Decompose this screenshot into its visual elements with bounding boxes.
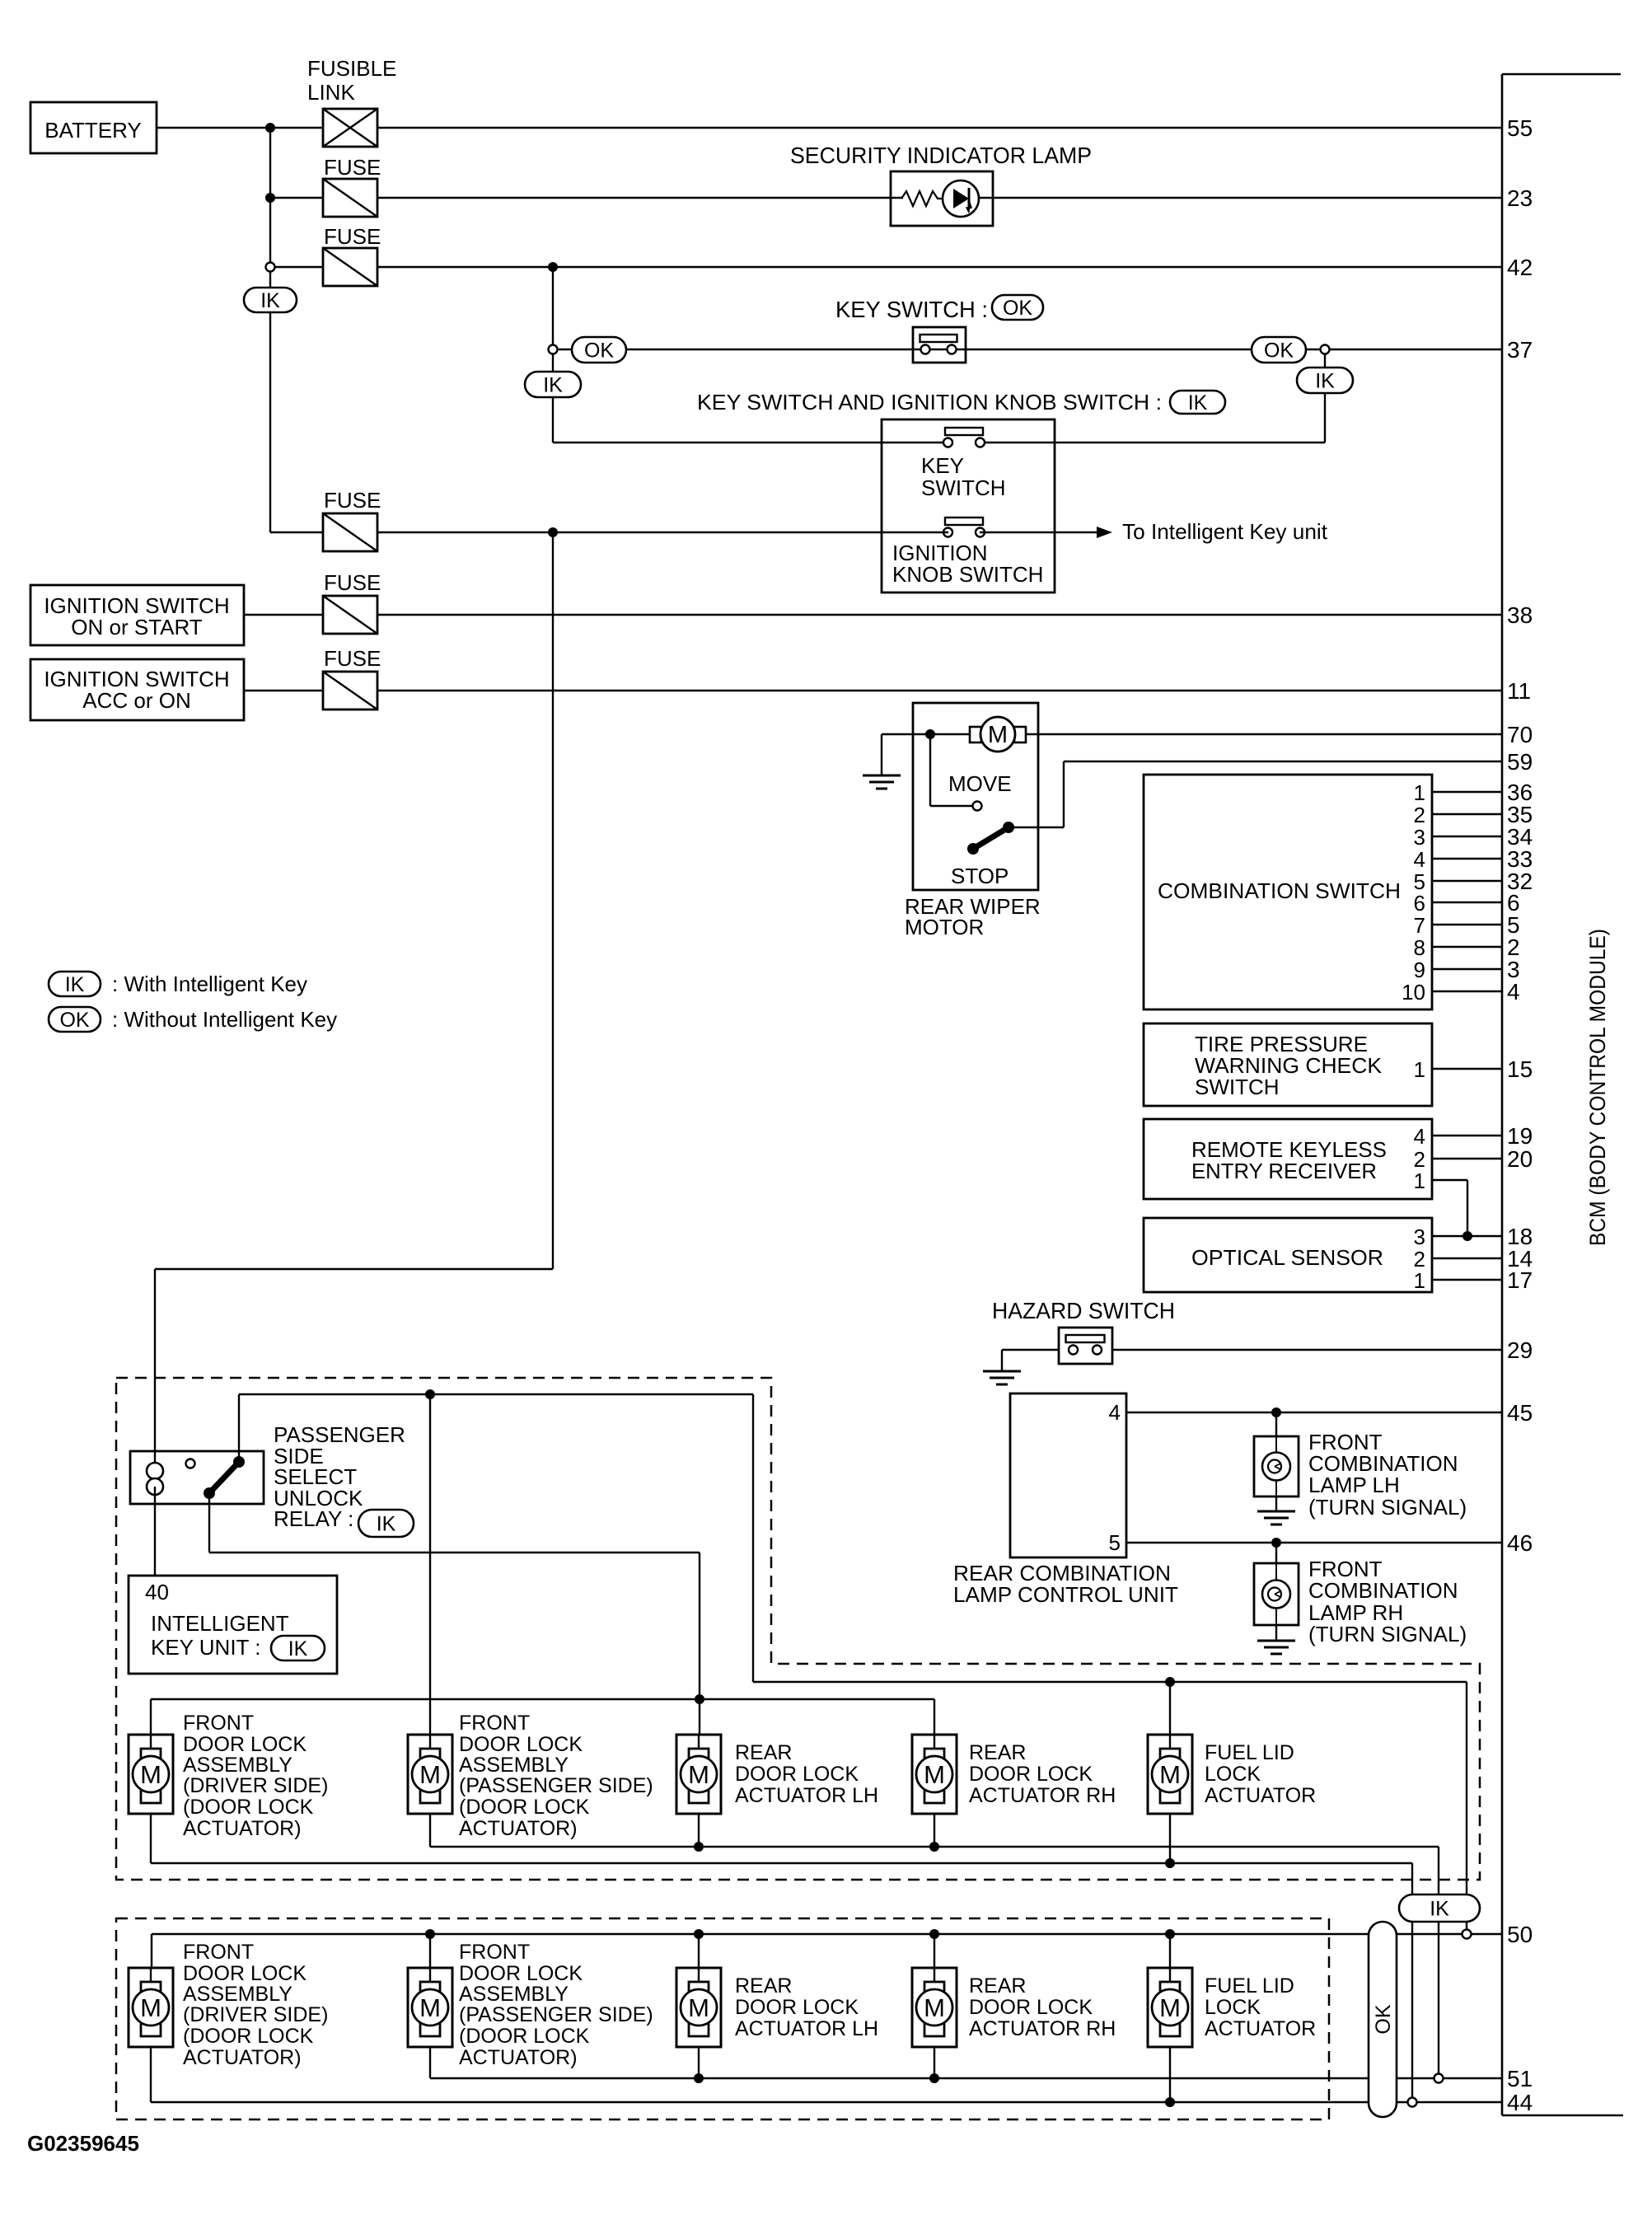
svg-text:4: 4 <box>1109 1400 1121 1425</box>
ground rear wiper <box>863 775 901 789</box>
svg-text:ASSEMBLY: ASSEMBLY <box>183 1983 292 2006</box>
wire battery column to fuse F3 <box>270 532 323 533</box>
svg-text:M: M <box>988 722 1008 748</box>
wire fusible link to pin 55 <box>377 127 1502 129</box>
front door lock actuator driver side IK <box>129 1735 173 1814</box>
rear door lock actuator RH OK <box>912 1968 957 2047</box>
pin 59 <box>1507 749 1533 775</box>
front door lock actuator passenger side OK <box>408 1968 452 2047</box>
svg-text:ACTUATOR): ACTUATOR) <box>183 2046 302 2069</box>
svg-text:42: 42 <box>1507 255 1533 280</box>
svg-text:IK: IK <box>543 374 563 397</box>
wire IK unlock net to pin 50 <box>1466 1682 1467 1934</box>
pin 45 <box>1507 1400 1533 1426</box>
svg-text:: Without Intelligent Key: : Without Intelligent Key <box>112 1007 337 1032</box>
node passenger unlock branch <box>425 1389 435 1399</box>
svg-text:To Intelligent Key unit: To Intelligent Key unit <box>1122 519 1328 544</box>
node battery junction 1 <box>265 123 275 133</box>
node rear LH top junction <box>695 1694 704 1704</box>
wire ignition ON to fuse F4 <box>244 614 323 616</box>
wire relay contact to unlock net <box>239 1394 753 1682</box>
front combination lamp RH <box>1254 1543 1467 1654</box>
svg-text:DOOR LOCK: DOOR LOCK <box>459 1733 583 1756</box>
driver side assembly label IK <box>183 1712 328 1840</box>
svg-text:IK: IK <box>65 973 85 996</box>
svg-text:M: M <box>924 1760 945 1789</box>
ignition switch ACC or ON box <box>30 659 244 720</box>
svg-text:IK: IK <box>1188 391 1208 414</box>
wire IK circle to fuse F2 <box>270 266 323 268</box>
svg-text:29: 29 <box>1507 1337 1533 1363</box>
svg-text:KEY SWITCH AND IGNITION KNOB S: KEY SWITCH AND IGNITION KNOB SWITCH : <box>697 390 1162 414</box>
svg-text:OK: OK <box>1372 2004 1395 2034</box>
wire passenger actuator feed <box>429 1394 431 1735</box>
combination switch pin 1 wire to pin 36 <box>1414 780 1533 805</box>
svg-text:20: 20 <box>1507 1146 1533 1172</box>
svg-text:LAMP CONTROL UNIT: LAMP CONTROL UNIT <box>953 1582 1178 1607</box>
svg-text:KEY SWITCH :: KEY SWITCH : <box>835 297 988 322</box>
KEY SWITCH AND IGNITION KNOB SWITCH heading <box>697 390 1225 414</box>
wire stop contact to pin 59 <box>1009 761 1502 827</box>
svg-text:BATTERY: BATTERY <box>44 118 142 143</box>
svg-text:3: 3 <box>1414 825 1425 850</box>
wire IK row return bus A <box>430 1814 1439 2078</box>
svg-text:FUSE: FUSE <box>324 570 381 595</box>
svg-text:45: 45 <box>1507 1400 1533 1426</box>
svg-text:IK: IK <box>288 1637 308 1660</box>
front combination lamp LH <box>1254 1412 1467 1524</box>
wiper motor M <box>970 717 1026 752</box>
svg-text:(DOOR LOCK: (DOOR LOCK <box>459 2025 590 2048</box>
svg-text:(DRIVER SIDE): (DRIVER SIDE) <box>183 2003 328 2026</box>
svg-text:IK: IK <box>1315 370 1335 393</box>
node pin 18 junction <box>1462 1231 1472 1241</box>
svg-text:(DOOR LOCK: (DOOR LOCK <box>183 2025 314 2048</box>
wire fuse F3 to ignition knob switch <box>377 532 948 533</box>
svg-text:M: M <box>419 1760 441 1789</box>
svg-text:8: 8 <box>1414 935 1425 960</box>
svg-text:ACTUATOR): ACTUATOR) <box>459 1817 578 1840</box>
pin 23 <box>1507 185 1533 211</box>
wire IK row return bus B <box>151 1814 1412 2102</box>
svg-text:ON or START: ON or START <box>71 615 203 639</box>
legend IK With Intelligent Key <box>49 972 307 996</box>
wire hazard switch to pin 29 <box>1112 1349 1502 1351</box>
IK tag below left branch <box>525 354 581 443</box>
tire pressure pin 1 wire to pin 15 <box>1414 1056 1533 1082</box>
svg-text:G02359645: G02359645 <box>27 2131 139 2156</box>
svg-text:17: 17 <box>1507 1267 1533 1293</box>
pin 29 <box>1507 1337 1533 1363</box>
svg-text:ACTUATOR LH: ACTUATOR LH <box>735 1784 878 1807</box>
pin 55 <box>1507 115 1533 141</box>
svg-text:OK: OK <box>584 340 614 363</box>
wire hazard switch to ground <box>1002 1350 1059 1371</box>
svg-text:MOTOR: MOTOR <box>905 915 984 939</box>
wire control unit pin 5 to pin 46 <box>1126 1542 1502 1543</box>
svg-text:KEY: KEY <box>921 453 964 478</box>
pin 37 <box>1507 337 1533 363</box>
svg-text:OK: OK <box>1264 340 1294 363</box>
node rear LH bottom junction <box>694 1814 704 1852</box>
tire pressure warning check switch box <box>1144 1023 1432 1106</box>
svg-text:ACTUATOR LH: ACTUATOR LH <box>735 2017 878 2040</box>
svg-text:FRONT: FRONT <box>459 1941 530 1964</box>
wire pin 44 bus <box>151 2047 1502 2102</box>
svg-text:IK: IK <box>260 289 280 312</box>
rear door lock actuator LH IK <box>676 1735 721 1814</box>
combination switch pin 8 wire to pin 2 <box>1414 934 1520 960</box>
wire ignition ACC to fuse F5 <box>244 690 323 691</box>
svg-text:1: 1 <box>1414 1268 1425 1293</box>
BCM bus line <box>1502 74 1623 2115</box>
svg-text:3: 3 <box>1414 1225 1425 1249</box>
svg-text:7: 7 <box>1414 913 1425 938</box>
hazard switch <box>992 1298 1175 1364</box>
rear door lock actuator RH IK <box>912 1735 957 1814</box>
receiver pin 1 wire to node 18 <box>1414 1169 1467 1236</box>
svg-text:9: 9 <box>1414 958 1425 982</box>
fuel lid label IK <box>1205 1741 1316 1807</box>
combination switch pin 3 wire to pin 34 <box>1414 824 1533 850</box>
svg-text:COMBINATION SWITCH: COMBINATION SWITCH <box>1158 878 1401 903</box>
fuel lid lock actuator IK <box>1148 1735 1192 1814</box>
svg-text:FUEL LID: FUEL LID <box>1205 1974 1294 1998</box>
svg-text:4: 4 <box>1414 1124 1425 1149</box>
wire relay lower contact to lock net <box>209 1493 700 1735</box>
node fuel lid bottom OK <box>1165 2047 1175 2107</box>
node fuse F3 branch junction <box>548 527 558 537</box>
svg-text:: With Intelligent Key: : With Intelligent Key <box>112 972 307 996</box>
OK tag left on key switch row <box>572 337 626 363</box>
wire fuel lid actuator feed <box>1169 1682 1171 1735</box>
svg-text:40: 40 <box>145 1580 169 1604</box>
wire fuse F5 to pin 11 <box>377 690 1502 691</box>
svg-text:LAMP LH: LAMP LH <box>1308 1473 1400 1497</box>
node rear RH bottom OK <box>929 2047 939 2083</box>
rear wiper motor box <box>913 703 1038 890</box>
wire control unit pin 4 to pin 45 <box>1126 1412 1502 1413</box>
svg-text:44: 44 <box>1507 2090 1533 2115</box>
svg-text:MOVE: MOVE <box>948 771 1012 796</box>
node passenger top OK <box>425 1929 435 1968</box>
svg-text:BCM (BODY CONTROL MODULE): BCM (BODY CONTROL MODULE) <box>1585 929 1610 1246</box>
svg-text:ASSEMBLY: ASSEMBLY <box>459 1754 569 1777</box>
svg-text:M: M <box>419 1993 441 2022</box>
IK connector circle pin 51 <box>1434 2074 1444 2083</box>
svg-text:FUSE: FUSE <box>324 488 381 513</box>
svg-text:ACTUATOR: ACTUATOR <box>1205 2017 1316 2040</box>
node rear LH top OK <box>694 1929 704 1968</box>
key switch and ignition knob switch box <box>882 419 1055 592</box>
KEY SWITCH label inside box <box>921 453 1006 500</box>
front door lock actuator driver side OK <box>129 1968 173 2047</box>
fuse F3 <box>323 488 381 551</box>
svg-text:23: 23 <box>1507 185 1533 211</box>
svg-text:DOOR LOCK: DOOR LOCK <box>183 1962 307 1985</box>
fuse F1 <box>323 155 381 217</box>
battery feed vertical wire <box>269 128 271 532</box>
svg-text:FRONT: FRONT <box>183 1941 254 1964</box>
passenger side select unlock relay <box>130 1451 264 1504</box>
svg-text:DOOR LOCK: DOOR LOCK <box>735 1763 859 1786</box>
svg-text:FRONT: FRONT <box>459 1712 530 1735</box>
svg-text:COMBINATION: COMBINATION <box>1308 1578 1458 1603</box>
IGNITION KNOB SWITCH label inside box <box>892 541 1043 587</box>
IK connector circle on battery feed <box>266 263 275 272</box>
svg-text:DOOR LOCK: DOOR LOCK <box>735 1996 859 2019</box>
svg-text:1: 1 <box>1414 780 1425 805</box>
pin 50 <box>1507 1922 1533 1947</box>
combination switch pin 7 wire to pin 5 <box>1414 912 1520 938</box>
svg-text:46: 46 <box>1507 1530 1533 1556</box>
svg-text:IK: IK <box>1430 1898 1449 1921</box>
wire battery to fuse F1 <box>270 197 323 199</box>
svg-text:M: M <box>688 1760 709 1789</box>
rear RH label IK <box>969 1741 1116 1807</box>
IK tag below right branch <box>1297 354 1353 443</box>
rear door lock actuator LH OK <box>676 1968 721 2047</box>
svg-text:REAR: REAR <box>735 1974 792 1998</box>
svg-text:OK: OK <box>59 1009 89 1032</box>
svg-text:6: 6 <box>1414 891 1425 916</box>
svg-text:DOOR LOCK: DOOR LOCK <box>969 1996 1093 2019</box>
svg-text:SWITCH: SWITCH <box>1195 1075 1280 1099</box>
pin 70 <box>1507 722 1533 747</box>
ignition switch ON or START box <box>30 585 244 645</box>
svg-text:FUEL LID: FUEL LID <box>1205 1741 1294 1764</box>
fuse F5 <box>323 646 381 710</box>
svg-text:51: 51 <box>1507 2066 1533 2091</box>
svg-text:1: 1 <box>1414 1057 1425 1082</box>
wire fuse F2 to pin 42 <box>377 266 1502 268</box>
rear RH label OK <box>969 1974 1116 2040</box>
OK tag right on key switch row <box>1252 337 1306 363</box>
receiver pin 2 wire to pin 20 <box>1414 1146 1533 1172</box>
fuse F2 <box>323 224 381 286</box>
svg-text:M: M <box>140 1993 161 2022</box>
svg-text:ACTUATOR): ACTUATOR) <box>183 1817 302 1840</box>
wire wiper motor to pin 70 <box>1026 733 1502 735</box>
svg-text:RELAY :: RELAY : <box>274 1506 353 1531</box>
svg-text:ASSEMBLY: ASSEMBLY <box>183 1754 292 1777</box>
svg-text:FUSE: FUSE <box>324 155 381 180</box>
front door lock actuator passenger side IK <box>408 1735 452 1814</box>
node rear RH top OK <box>929 1929 939 1968</box>
svg-text:REAR: REAR <box>969 1974 1026 1998</box>
combination switch pin 5 wire to pin 32 <box>1414 869 1533 894</box>
svg-text:M: M <box>924 1993 945 2022</box>
pin 51 <box>1507 2066 1533 2091</box>
node wiper junction <box>925 729 935 739</box>
svg-text:REAR: REAR <box>969 1741 1026 1764</box>
svg-text:ACC or ON: ACC or ON <box>82 688 190 713</box>
node fuel lid bottom junction <box>1165 1814 1175 1868</box>
IK connector circle pin 44 <box>1408 2098 1417 2107</box>
svg-text:INTELLIGENT: INTELLIGENT <box>151 1611 289 1636</box>
svg-text:(TURN SIGNAL): (TURN SIGNAL) <box>1308 1495 1467 1520</box>
wire relay coil to intelligent key unit <box>154 1487 156 1576</box>
svg-text:19: 19 <box>1507 1123 1533 1149</box>
fuel lid lock actuator OK <box>1148 1968 1192 2047</box>
node lamp LH junction <box>1271 1407 1281 1417</box>
combination switch pin 9 wire to pin 3 <box>1414 957 1520 982</box>
svg-text:(DOOR LOCK: (DOOR LOCK <box>459 1796 590 1819</box>
with Intelligent Key dashed boundary <box>116 1378 1480 1880</box>
optical sensor pin 2 wire to pin 14 <box>1414 1246 1533 1272</box>
wire fuse F4 to pin 38 <box>377 614 1502 616</box>
rear LH label IK <box>735 1741 878 1807</box>
node rear RH bottom junction <box>929 1814 939 1852</box>
fuse F4 <box>323 570 381 634</box>
svg-text:(DOOR LOCK: (DOOR LOCK <box>183 1796 314 1819</box>
svg-text:DOOR LOCK: DOOR LOCK <box>183 1733 307 1756</box>
intelligent key unit box <box>129 1576 337 1674</box>
svg-text:ACTUATOR: ACTUATOR <box>1205 1784 1316 1807</box>
optical sensor pin 3 wire to pin 18 <box>1414 1224 1533 1249</box>
without Intelligent Key dashed boundary <box>116 1918 1329 2119</box>
svg-text:2: 2 <box>1414 803 1425 827</box>
wire key switch upper contact to right branch <box>980 442 1325 443</box>
svg-text:M: M <box>140 1760 161 1789</box>
node lamp RH junction <box>1271 1538 1281 1548</box>
wire branch down to key switch row <box>552 267 554 349</box>
svg-text:FRONT: FRONT <box>183 1712 254 1735</box>
remote keyless entry receiver box <box>1144 1119 1432 1199</box>
OK tag on actuator wire bundle <box>1369 1922 1397 2117</box>
node IK/OK branch circle left <box>549 345 558 354</box>
optical sensor pin 1 wire to pin 17 <box>1414 1267 1533 1293</box>
svg-text:70: 70 <box>1507 722 1533 747</box>
pin 46 <box>1507 1530 1533 1556</box>
svg-text:SECURITY INDICATOR LAMP: SECURITY INDICATOR LAMP <box>790 143 1092 168</box>
svg-text:LOCK: LOCK <box>1205 1996 1261 2019</box>
svg-text:ACTUATOR): ACTUATOR) <box>459 2046 578 2069</box>
ignition knob switch contact symbol <box>943 518 985 537</box>
svg-text:(PASSENGER SIDE): (PASSENGER SIDE) <box>459 1774 653 1797</box>
wire pin 51 bus <box>430 2047 1502 2078</box>
svg-text:OK: OK <box>1003 297 1032 320</box>
node rear LH bottom OK <box>694 2047 704 2083</box>
pin 44 <box>1507 2090 1533 2115</box>
wire key switch row to pin 37 <box>557 349 1502 350</box>
node IK/OK branch circle right <box>1321 345 1330 354</box>
svg-text:HAZARD SWITCH: HAZARD SWITCH <box>992 1298 1175 1323</box>
svg-text:FUSIBLE: FUSIBLE <box>307 56 396 81</box>
arrow To Intelligent Key unit <box>980 519 1328 544</box>
wire fuse F1 to security lamp <box>377 197 903 199</box>
svg-text:IK: IK <box>377 1513 396 1536</box>
BCM (BODY CONTROL MODULE) label <box>1585 929 1610 1246</box>
svg-text:ASSEMBLY: ASSEMBLY <box>459 1983 569 2006</box>
svg-text:55: 55 <box>1507 115 1533 141</box>
combination switch pin 10 wire to pin 4 <box>1402 979 1520 1005</box>
wire fuse F3 branch down to relay <box>155 532 553 1468</box>
passenger side assembly label IK <box>459 1712 653 1840</box>
svg-text:OPTICAL SENSOR: OPTICAL SENSOR <box>1191 1245 1383 1270</box>
wiper STOP contact arm <box>951 822 1014 888</box>
svg-text:FUSE: FUSE <box>324 224 381 249</box>
pin 11 <box>1507 678 1531 704</box>
svg-text:(TURN SIGNAL): (TURN SIGNAL) <box>1308 1622 1467 1646</box>
combination switch pin 4 wire to pin 33 <box>1414 846 1533 872</box>
combination switch box <box>1144 775 1432 1009</box>
svg-text:DOOR LOCK: DOOR LOCK <box>969 1763 1093 1786</box>
svg-text:KNOB SWITCH: KNOB SWITCH <box>892 562 1043 587</box>
svg-text:38: 38 <box>1507 602 1533 628</box>
IK connector circle pin 50 <box>1462 1930 1472 1939</box>
key switch upper contact symbol <box>943 428 985 447</box>
pin 38 <box>1507 602 1533 628</box>
wire ground to wiper motor <box>882 734 970 775</box>
node fuse F2 branch junction <box>548 262 558 272</box>
node fuel lid top OK <box>1165 1929 1175 1968</box>
IK tag on actuator branch bundle <box>1399 1894 1480 1922</box>
svg-text:37: 37 <box>1507 337 1533 363</box>
wire IK row lock bus <box>151 1699 934 1735</box>
svg-text:DOOR LOCK: DOOR LOCK <box>459 1962 583 1985</box>
legend OK Without Intelligent Key <box>49 1007 337 1032</box>
fusible link FL <box>307 56 396 147</box>
svg-text:FUSE: FUSE <box>324 646 381 671</box>
svg-text:1: 1 <box>1414 1169 1425 1193</box>
wire IK row unlock bus <box>753 1681 1467 1683</box>
svg-text:4: 4 <box>1414 847 1425 872</box>
figure number G02359645 <box>27 2131 139 2156</box>
svg-text:ENTRY RECEIVER: ENTRY RECEIVER <box>1191 1159 1377 1183</box>
fuel lid label OK <box>1205 1974 1316 2040</box>
rear combination lamp control unit box <box>953 1393 1178 1607</box>
IK tag on battery feed <box>244 288 297 312</box>
driver side assembly label OK <box>183 1941 328 2069</box>
pin 42 <box>1507 255 1533 280</box>
combination switch pin 2 wire to pin 35 <box>1414 802 1533 827</box>
wire battery to fusible link <box>157 127 323 129</box>
svg-text:M: M <box>688 1993 709 2022</box>
svg-text:STOP: STOP <box>951 864 1009 888</box>
wire pin 50 bus <box>152 1934 1502 1968</box>
key switch contact symbol <box>913 327 966 363</box>
battery B+ box <box>30 102 157 153</box>
svg-text:KEY UNIT :: KEY UNIT : <box>151 1635 260 1660</box>
svg-text:ACTUATOR RH: ACTUATOR RH <box>969 1784 1116 1807</box>
svg-text:11: 11 <box>1507 678 1531 704</box>
svg-text:5: 5 <box>1109 1530 1121 1555</box>
wiper MOVE contact <box>930 734 1012 811</box>
svg-text:LINK: LINK <box>307 80 355 105</box>
svg-text:10: 10 <box>1402 980 1425 1005</box>
node battery junction 2 <box>265 193 275 203</box>
combination switch pin 6 wire to pin 6 <box>1414 890 1520 916</box>
relay label <box>274 1422 414 1537</box>
security indicator lamp <box>790 143 1092 226</box>
receiver pin 4 wire to pin 19 <box>1414 1123 1533 1149</box>
ground hazard switch <box>983 1371 1021 1384</box>
svg-text:(DRIVER SIDE): (DRIVER SIDE) <box>183 1774 328 1797</box>
svg-text:M: M <box>1159 1760 1181 1789</box>
svg-text:SWITCH: SWITCH <box>921 475 1006 500</box>
passenger side assembly label OK <box>459 1941 653 2069</box>
svg-text:REAR: REAR <box>735 1741 792 1764</box>
optical sensor box <box>1144 1218 1432 1292</box>
svg-text:LOCK: LOCK <box>1205 1763 1261 1786</box>
rear LH label OK <box>735 1974 878 2040</box>
svg-text:(PASSENGER SIDE): (PASSENGER SIDE) <box>459 2003 653 2026</box>
svg-text:50: 50 <box>1507 1922 1533 1947</box>
svg-text:4: 4 <box>1507 979 1520 1005</box>
KEY SWITCH heading <box>835 295 1043 322</box>
svg-text:15: 15 <box>1507 1056 1533 1082</box>
